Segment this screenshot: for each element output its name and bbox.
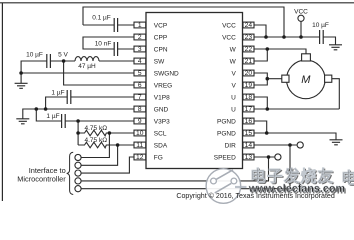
svg-text:VCC: VCC — [222, 34, 236, 41]
svg-text:DIR: DIR — [225, 142, 237, 149]
svg-text:VCC: VCC — [222, 22, 236, 29]
svg-text:电: 电 — [341, 169, 354, 188]
svg-text:5: 5 — [138, 70, 142, 77]
svg-text:0.1 µF: 0.1 µF — [92, 15, 111, 22]
svg-text:8: 8 — [138, 106, 142, 113]
svg-text:M: M — [301, 74, 311, 86]
svg-text:SPEED: SPEED — [214, 154, 236, 161]
svg-text:13: 13 — [245, 154, 253, 161]
svg-text:2: 2 — [138, 34, 142, 41]
svg-text:22: 22 — [245, 46, 253, 53]
svg-text:Microcontroller: Microcontroller — [17, 175, 66, 184]
svg-text:14: 14 — [245, 142, 253, 149]
svg-text:17: 17 — [245, 106, 253, 113]
svg-text:Copyright © 2016, Texas Instru: Copyright © 2016, Texas Instruments Inco… — [176, 192, 335, 200]
svg-text:CPN: CPN — [154, 46, 168, 53]
svg-text:23: 23 — [245, 34, 253, 41]
svg-text:V: V — [231, 70, 236, 77]
svg-text:24: 24 — [245, 22, 253, 29]
svg-text:9: 9 — [138, 118, 142, 125]
svg-text:CPP: CPP — [154, 34, 167, 41]
svg-text:PGND: PGND — [217, 118, 236, 125]
svg-text:V1P8: V1P8 — [154, 94, 170, 101]
svg-text:FG: FG — [154, 154, 163, 161]
svg-text:U: U — [231, 106, 236, 113]
svg-text:W: W — [230, 46, 237, 53]
svg-text:VCC: VCC — [294, 8, 308, 15]
svg-text:SWGND: SWGND — [154, 70, 179, 77]
svg-text:PGND: PGND — [217, 130, 236, 137]
svg-text:10: 10 — [136, 130, 144, 137]
svg-text:V3P3: V3P3 — [154, 118, 170, 125]
svg-text:1 µF: 1 µF — [51, 90, 64, 97]
svg-text:W: W — [230, 58, 237, 65]
svg-text:5 V: 5 V — [58, 52, 68, 59]
svg-text:SW: SW — [154, 58, 165, 65]
svg-text:VCP: VCP — [154, 22, 167, 29]
svg-text:VREG: VREG — [154, 82, 172, 89]
svg-text:15: 15 — [245, 130, 253, 137]
svg-text:7: 7 — [138, 94, 142, 101]
svg-text:12: 12 — [136, 154, 144, 161]
svg-text:10 µF: 10 µF — [312, 22, 329, 29]
svg-text:21: 21 — [245, 58, 253, 65]
svg-text:1 µF: 1 µF — [46, 113, 59, 120]
svg-text:1: 1 — [138, 22, 142, 29]
svg-text:10 µF: 10 µF — [26, 52, 43, 59]
svg-text:3: 3 — [138, 46, 142, 53]
svg-text:4.75 kΩ: 4.75 kΩ — [85, 137, 108, 144]
svg-text:SCL: SCL — [154, 130, 167, 137]
svg-text:47 µH: 47 µH — [78, 63, 96, 70]
svg-text:19: 19 — [245, 82, 253, 89]
svg-text:18: 18 — [245, 94, 253, 101]
svg-text:4: 4 — [138, 58, 142, 65]
svg-text:SDA: SDA — [154, 142, 168, 149]
svg-text:11: 11 — [136, 142, 143, 149]
svg-text:U: U — [231, 94, 236, 101]
svg-text:10 nF: 10 nF — [95, 41, 112, 48]
svg-text:16: 16 — [245, 118, 253, 125]
svg-text:20: 20 — [245, 70, 253, 77]
svg-text:GND: GND — [154, 106, 169, 113]
svg-text:4.75 kΩ: 4.75 kΩ — [85, 125, 108, 132]
svg-text:6: 6 — [138, 82, 142, 89]
svg-text:V: V — [231, 82, 236, 89]
